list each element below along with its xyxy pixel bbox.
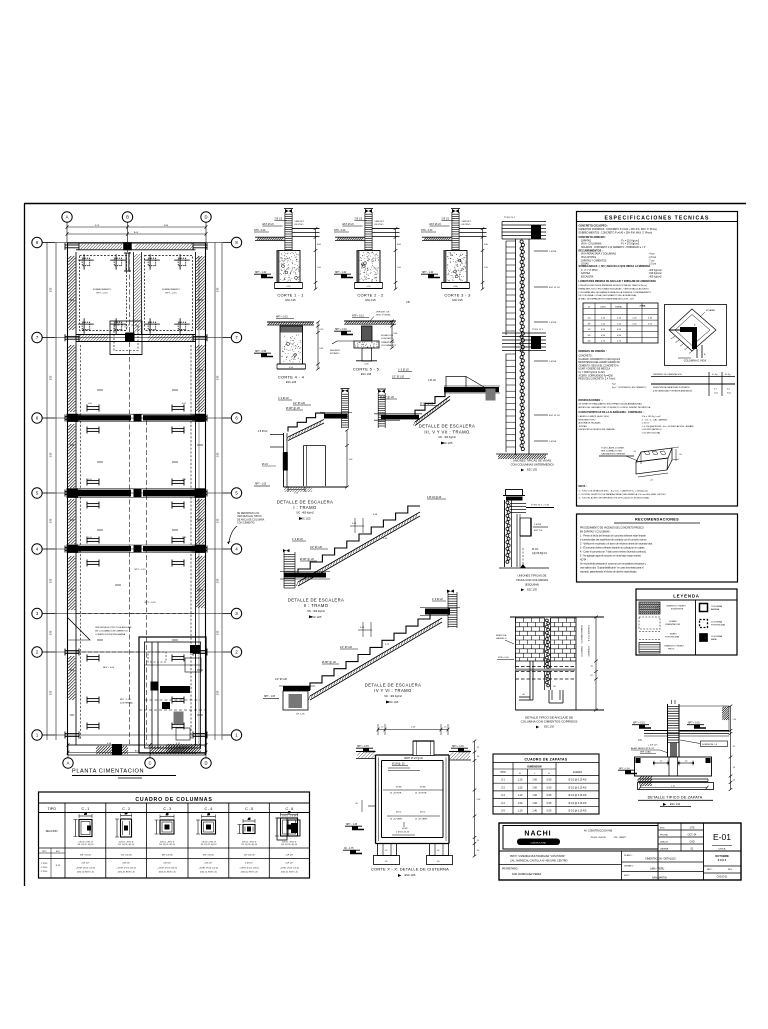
svg-text:2.85: 2.85 — [218, 287, 220, 292]
svg-text:NTN +0.00: NTN +0.00 — [498, 657, 509, 659]
grid bubble C bottom — [145, 758, 155, 768]
stair detail I tramo — [254, 389, 353, 521]
svg-text:1/4: 1@.05, 4@.10: 1/4: 1@.05, 4@.10 — [118, 844, 134, 846]
svg-text:LADRILLO: LADRILLO — [496, 637, 507, 640]
svg-text:3º PISO: 3º PISO — [41, 870, 48, 873]
svg-text:: 2.5 cm: : 2.5 cm — [648, 257, 656, 259]
detail uniones vigas-columnas intermedio — [496, 216, 560, 472]
svg-text:+4 EST. Ø 1/4: 1@.05: +4 EST. Ø 1/4: 1@.05 — [116, 867, 136, 869]
svg-text:CIMIENTO Y MURO: CIMIENTO Y MURO — [666, 606, 686, 608]
title block scale table — [657, 823, 659, 880]
svg-text:NPT - 1.10: NPT - 1.10 — [335, 272, 347, 274]
svg-text:Ø 3/8: Ø 3/8 — [402, 828, 408, 830]
box especificaciones tecnicas — [577, 212, 738, 507]
svg-text:2.- EL NIVEL DE APOYO DE ZAPAT: 2.- EL NIVEL DE APOYO DE ZAPATAS SERA CU… — [579, 493, 667, 496]
svg-text:LONGITUDES MINIMAS DE ANCLAJE: LONGITUDES MINIMAS DE ANCLAJE Y EMPALME … — [579, 280, 657, 283]
room dashed sobrecimiento outlines upper-left — [80, 256, 127, 331]
bottom wall row 1 — [68, 744, 206, 746]
svg-text:1.40: 1.40 — [532, 810, 537, 813]
svg-text:1º 2 Ø 1/2: 1º 2 Ø 1/2 — [292, 537, 303, 541]
svg-text:Ø 3/8" @ .20: Ø 3/8" @ .20 — [380, 396, 394, 399]
leyenda swatch sobrecimentacion — [639, 617, 660, 629]
svg-text:TIPO: TIPO — [42, 851, 47, 853]
svg-text:SECCION: SECCION — [46, 829, 58, 833]
svg-text:ESC 1/25: ESC 1/25 — [365, 299, 376, 302]
svg-text:2.85: 2.85 — [51, 578, 53, 583]
svg-text:C - 2: C - 2 — [122, 807, 130, 811]
svg-text:SEGUNDO: SEGUNDO — [330, 350, 341, 352]
svg-text:NPT + 0.15: NPT + 0.15 — [633, 723, 645, 725]
svg-text:2.5 Ø 1/2: 2.5 Ø 1/2 — [258, 431, 268, 433]
svg-text:2.- Verificar el encofrado y e: 2.- Verificar el encofrado y el acero de… — [580, 543, 653, 546]
top dimension lines — [67, 226, 206, 228]
svg-text:CORTE 2 - 2: CORTE 2 - 2 — [357, 292, 384, 297]
svg-text:: 0.15 MTS (SOGA): : 0.15 MTS (SOGA) — [641, 432, 660, 435]
svg-text:2 Ø 5/8: 2 Ø 5/8 — [549, 361, 557, 363]
leyenda symbol columna baja — [700, 634, 708, 642]
svg-text:1/2" Ø 1.20: 1/2" Ø 1.20 — [310, 546, 323, 549]
table cuadro de zapatas — [493, 754, 599, 814]
svg-text:0.50: 0.50 — [547, 779, 552, 782]
grid bubble A bottom — [63, 758, 73, 768]
svg-text:ESC 1/10: ESC 1/10 — [670, 803, 681, 806]
svg-text:.25: .25 — [207, 814, 210, 816]
svg-text:ESC 1/25: ESC 1/25 — [388, 701, 399, 704]
svg-text:VIGAS CON COLUMNAS: VIGAS CON COLUMNAS — [516, 578, 548, 582]
svg-text:DIBUJO:: DIBUJO: — [660, 842, 669, 844]
svg-text:B: B — [126, 215, 129, 220]
svg-text:DETALLE DE ESCALERA: DETALLE DE ESCALERA — [365, 682, 421, 687]
svg-text:.40: .40 — [660, 761, 663, 763]
svg-text:CIMIENTO: CIMIENTO — [580, 646, 582, 657]
svg-text:(ESQUINA): (ESQUINA) — [525, 583, 540, 587]
svg-text:RESISTENCIA CAPACIDAD PORTANTE: RESISTENCIA CAPACIDAD PORTANTE — [653, 386, 690, 389]
svg-text:4 Ø 1/2": 4 Ø 1/2" — [163, 863, 171, 865]
svg-text:COLUMNA CON CIMIENTOS CORRIDOS: COLUMNA CON CIMIENTOS CORRIDOS — [521, 720, 578, 724]
footing section CORTE 4-4 — [254, 317, 323, 384]
svg-text:F'c Kg: F'c Kg — [725, 374, 730, 376]
svg-text:C: C — [148, 761, 151, 766]
right extension lines — [214, 243, 216, 741]
svg-text:ZAPATAS: ZAPATAS — [581, 239, 591, 242]
svg-text:1.- Previo al inicio del llena: 1.- Previo al inicio del llenado del con… — [580, 535, 646, 538]
svg-text:.95: .95 — [733, 746, 736, 748]
svg-text:4@0.10, RSTO .20: 4@0.10, RSTO .20 — [118, 872, 136, 874]
spec anchorage diagram columna o viga — [665, 305, 727, 366]
svg-text:4@0.10, RSTO .20: 4@0.10, RSTO .20 — [77, 872, 95, 874]
box recomendaciones — [577, 514, 738, 582]
svg-text:LONGITUD RECTA DE EMPALME SEGU: LONGITUD RECTA DE EMPALME SEGUN ZONA DE … — [579, 284, 648, 287]
svg-text:1º 2 Ø 1/2: 1º 2 Ø 1/2 — [278, 396, 289, 400]
svg-text:REV. :: REV. : — [707, 869, 714, 871]
leader note between plan and stairs — [227, 512, 265, 544]
svg-text:.25: .25 — [84, 814, 87, 816]
svg-text:VER CUAD.: VER CUAD. — [640, 751, 652, 754]
svg-text:ALAM. NEGRO Nº 8 C/3: ALAM. NEGRO Nº 8 C/3 — [631, 747, 655, 750]
foundation plan PLANTA CIMENTACION — [32, 212, 242, 778]
svg-text:CONCRETO ARMADO :: CONCRETO ARMADO : — [579, 236, 607, 239]
svg-text:LADRILLO (ARCILLA KK 18 H): LADRILLO (ARCILLA KK 18 H) — [579, 415, 610, 418]
detail corte X-X cisterna — [343, 724, 480, 877]
svg-text:1.50: 1.50 — [518, 786, 523, 789]
svg-text:1/4: 1@.05, 4@.10: 1/4: 1@.05, 4@.10 — [78, 844, 94, 846]
svg-text:2 Ø 1/2: 2 Ø 1/2 — [428, 379, 437, 382]
svg-text:ESC 1/25: ESC 1/25 — [300, 518, 311, 521]
zapata upper wall rectangle — [679, 706, 729, 732]
svg-text:SOBRECIMIENTO: SOBRECIMIENTO — [162, 289, 181, 291]
svg-text:: 0.25 MTS (APROX): : 0.25 MTS (APROX) — [641, 428, 662, 431]
svg-text:S/C : 400 Kg/m2: S/C : 400 Kg/m2 — [438, 436, 456, 439]
svg-text:: 150 Kg/cm2: : 150 Kg/cm2 — [648, 273, 662, 275]
svg-text:NPT + 0.15: NPT + 0.15 — [688, 723, 700, 725]
svg-text:SOBRE: SOBRE — [669, 621, 677, 623]
row 2 dashed line — [76, 651, 140, 653]
dashed corner columns upper rooms — [78, 254, 94, 270]
svg-text:ESC 1/25: ESC 1/25 — [285, 299, 296, 302]
svg-text:2.85: 2.85 — [218, 630, 220, 635]
svg-text:2º NIV. N.T.: 2º NIV. N.T. — [504, 216, 516, 219]
svg-text:4 Ø 1/2": 4 Ø 1/2" — [122, 863, 130, 865]
svg-text:NPT - 1.50: NPT - 1.50 — [619, 768, 630, 770]
detail anclaje columna con cimientos corridos — [496, 616, 604, 729]
svg-text:VIGA - COLUMNAS: VIGA - COLUMNAS — [581, 243, 602, 246]
footing section 2 - 2 — [334, 209, 402, 302]
svg-text:4@0.10, RSTO .20: 4@0.10, RSTO .20 — [241, 872, 259, 874]
svg-text:CAL. MARISCAL CASTILLA N° 456: CAL. MARISCAL CASTILLA N° 456 URB. CENTR… — [510, 860, 568, 863]
svg-text:DETALLE TIPICO DE ZAPATA: DETALLE TIPICO DE ZAPATA — [648, 795, 703, 799]
svg-text:SAN MARTIN: SAN MARTIN — [652, 877, 667, 880]
svg-text:CIMIENTO Y MURO: CIMIENTO Y MURO — [664, 646, 684, 648]
svg-text:TERRENO DE CIMENTACION: TERRENO DE CIMENTACION — [653, 373, 682, 376]
svg-text:.60: .60 — [385, 861, 388, 863]
svg-text:ZAPATAS Y CIMIENTOS: ZAPATAS Y CIMIENTOS — [581, 259, 607, 262]
svg-text:DE PISO: DE PISO — [375, 224, 384, 226]
svg-text:LAMINA:: LAMINA: — [660, 848, 669, 851]
svg-text:EXISTENTE: EXISTENTE — [671, 609, 684, 611]
svg-text:Ø 1/2: Ø 1/2 — [396, 812, 402, 814]
svg-text:3/8" 1@.05: 3/8" 1@.05 — [162, 854, 174, 856]
svg-text:1/4: 1@.05, 4@.10: 1/4: 1@.05, 4@.10 — [281, 844, 297, 846]
svg-text:I : TRAMO: I : TRAMO — [293, 505, 317, 510]
beam row 4 solid — [70, 546, 131, 551]
stair triangle lower-left wall — [68, 618, 90, 640]
svg-text:ESC 1/25: ESC 1/25 — [361, 373, 372, 376]
svg-text:F'c Kg: F'c Kg — [712, 374, 717, 376]
svg-text:CORRIDO: CORRIDO — [587, 646, 589, 657]
svg-text:ESC 1/25: ESC 1/25 — [442, 442, 453, 445]
svg-text:1.00: 1.00 — [532, 786, 537, 789]
svg-text:DE PISO: DE PISO — [295, 224, 304, 226]
svg-text:1/4: 1@.05, 4@.10: 1/4: 1@.05, 4@.10 — [201, 844, 217, 846]
svg-text:VER DET.: VER DET. — [375, 221, 385, 223]
zapata column grey core — [670, 743, 677, 757]
svg-text:Ø 1/2 @ 0.15 A/S: Ø 1/2 @ 0.15 A/S — [569, 810, 587, 813]
svg-text:2 Ø 1/2: 2 Ø 1/2 — [355, 219, 363, 221]
svg-text:1/4: 1@.05, 4@.10: 1/4: 1@.05, 4@.10 — [159, 844, 175, 846]
svg-text:CUADRO DE ZAPATAS: CUADRO DE ZAPATAS — [524, 757, 567, 761]
svg-text:NPT - 1.05: NPT - 1.05 — [120, 699, 131, 701]
grid bubble D top — [201, 212, 211, 222]
svg-text:PLANO :: PLANO : — [624, 854, 633, 857]
svg-text:BAJA: BAJA — [711, 638, 717, 641]
svg-text:PROPIETARIO :: PROPIETARIO : — [502, 868, 519, 871]
svg-text:C - 1: C - 1 — [82, 807, 90, 811]
svg-text:VER DET.: VER DET. — [462, 221, 472, 223]
svg-text:DIMENSION: DIMENSION — [527, 766, 541, 769]
svg-text:PLANTA CIMENTACION: PLANTA CIMENTACION — [72, 769, 144, 775]
svg-text:CORTE 1 - 1: CORTE 1 - 1 — [277, 292, 304, 297]
svg-text:EST. Ø 1/4: EST. Ø 1/4 — [549, 287, 560, 289]
svg-text:4@0.10, RSTO .20: 4@0.10, RSTO .20 — [159, 872, 177, 874]
svg-text:1/75: 1/75 — [690, 827, 695, 830]
svg-text:CORTE X - X: DETALLE DE CIST: CORTE X - X: DETALLE DE CISTERNA — [371, 867, 449, 872]
svg-text:E-01: E-01 — [713, 832, 731, 842]
svg-text:NPT - 1.05: NPT - 1.05 — [255, 484, 267, 486]
svg-text:CONCRETO CICLOPEO :: CONCRETO CICLOPEO : — [579, 225, 609, 228]
svg-text:VER DET.: VER DET. — [295, 221, 305, 223]
svg-text:Ø 1/4: Ø 1/4 — [262, 464, 268, 466]
svg-text:DIST. :: DIST. : — [624, 875, 631, 877]
grid bubble A top — [62, 212, 72, 222]
svg-text:: 4 cm: : 4 cm — [648, 254, 654, 256]
svg-text:VIGA CHATAS: VIGA CHATAS — [581, 256, 596, 259]
svg-text:1/2" Ø 1.20: 1/2" Ø 1.20 — [340, 646, 353, 649]
svg-text:2 Ø 5/8: 2 Ø 5/8 — [549, 322, 557, 324]
svg-text:DETALLE DE ESCALERA: DETALLE DE ESCALERA — [288, 597, 344, 602]
svg-text:Ø 1/2 @ 0.15 A/S: Ø 1/2 @ 0.15 A/S — [569, 779, 587, 782]
svg-text:CEMENTO: SEGUN EL CONCRETO A: CEMENTO: SEGUN EL CONCRETO A — [579, 364, 620, 367]
perimeter wall right — [205, 243, 207, 756]
svg-text:ACERO: CORRUGADO Fy=4200: ACERO: CORRUGADO Fy=4200 — [579, 374, 614, 377]
svg-text:2 Ø 1/2 @.25: 2 Ø 1/2 @.25 — [396, 832, 410, 834]
svg-text:Ø: Ø — [588, 307, 590, 309]
svg-text:: 1.5 CM (ESPESOR - Ecs, DOSIF: : 1.5 CM (ESPESOR - Ecs, DOSIFICACION - … — [641, 425, 694, 428]
svg-text:2.85: 2.85 — [218, 578, 220, 583]
svg-text:DE PISO: DE PISO — [462, 224, 471, 226]
row 3 dashed line — [76, 613, 195, 615]
svg-text:1 Ø 1/4": 1 Ø 1/4" — [285, 854, 293, 856]
svg-text:ESC 1/25: ESC 1/25 — [311, 616, 322, 619]
stair detail III V VII tramo — [374, 368, 500, 446]
svg-text:.40: .40 — [385, 850, 388, 852]
svg-text:SE DEBE DE REALIZAR EL ENCOFRA: SE DEBE DE REALIZAR EL ENCOFRADO A LAS A… — [579, 403, 643, 406]
svg-text:UNICA: UNICA — [719, 848, 726, 851]
svg-text:4@0.10, RSTO .20: 4@0.10, RSTO .20 — [281, 872, 299, 874]
svg-text:FECHA:: FECHA: — [660, 834, 668, 837]
svg-text:MURO DE: MURO DE — [496, 635, 507, 637]
perimeter column markers — [65, 415, 79, 422]
svg-text:V.S.: V.S. — [638, 739, 643, 742]
row grid lines across plan — [42, 242, 231, 244]
svg-text:DETALLE DE ESCALERA: DETALLE DE ESCALERA — [419, 424, 475, 429]
svg-text:Ø 3/8" @ .20: Ø 3/8" @ .20 — [286, 407, 300, 410]
svg-text:CONCRETO: CONCRETO — [381, 338, 393, 340]
svg-text:NPT + 0.15: NPT + 0.15 — [134, 569, 146, 571]
svg-text:EST. Ø 1/4: EST. Ø 1/4 — [263, 224, 275, 226]
svg-text:4@0.10, RSTO .20: 4@0.10, RSTO .20 — [200, 872, 218, 874]
svg-text:TELEF: 456789: TELEF: 456789 — [590, 837, 606, 839]
svg-text:0.50: 0.50 — [547, 794, 552, 797]
svg-text:S/C : 400 Kg/m2: S/C : 400 Kg/m2 — [296, 512, 314, 515]
detail tipico de zapata — [618, 700, 736, 807]
svg-text:2.85: 2.85 — [51, 518, 53, 523]
svg-text:V.B.: V.B. — [406, 301, 411, 304]
svg-text:3.- TODO EL ACERO DE REFUERZO: 3.- TODO EL ACERO DE REFUERZO ES DE F¡=4… — [579, 497, 650, 500]
svg-text:3.- El concreto debera vibrars: 3.- El concreto debera vibrarse durante … — [580, 547, 645, 550]
svg-text:4 Ø 1/2": 4 Ø 1/2" — [245, 863, 253, 865]
svg-text:NPT + 0.15: NPT + 0.15 — [144, 602, 156, 604]
svg-text:C - 4: C - 4 — [205, 807, 213, 811]
svg-text:+ 4 Ø 1/2": + 4 Ø 1/2" — [648, 745, 658, 747]
svg-text:1.00: 1.00 — [532, 802, 537, 805]
svg-text:ESPECIFICACIONES TECNICAS: ESPECIFICACIONES TECNICAS — [604, 215, 709, 221]
svg-text:VER DET. DE: VER DET. DE — [376, 312, 390, 314]
svg-text:IV Y VI : TRAMO: IV Y VI : TRAMO — [374, 688, 412, 693]
svg-text:C - 3: C - 3 — [163, 807, 171, 811]
footing section 1 - 1 — [254, 209, 322, 302]
svg-text:@ .20 HOR.: @ .20 HOR. — [415, 793, 427, 795]
svg-text:0.15: 0.15 — [320, 329, 324, 331]
svg-text:SOBRECIMIENTO: SOBRECIMIENTO — [93, 289, 112, 291]
svg-text:Kg f * CONTENIDO EN CEMENTO: Kg f * CONTENIDO EN CEMENTO — [612, 387, 647, 389]
svg-text:NOTA :: NOTA : — [579, 485, 587, 488]
svg-text:EST.: EST. — [56, 851, 61, 853]
svg-text:.15: .15 — [381, 727, 384, 729]
column symbols row 7 — [65, 334, 79, 341]
svg-text:+4 EST. Ø 1/4: 1@.05: +4 EST. Ø 1/4: 1@.05 — [239, 867, 259, 869]
svg-text:VER DETALLE TIPICO DE ANCLAJE: VER DETALLE TIPICO DE ANCLAJE — [95, 626, 132, 629]
svg-text:1º 2 Ø 1/2: 1º 2 Ø 1/2 — [432, 597, 443, 601]
svg-text:+4 EST. Ø 1/4: 1@.05: +4 EST. Ø 1/4: 1@.05 — [76, 867, 96, 869]
title block project rows — [499, 850, 741, 852]
svg-text:.20: .20 — [733, 780, 736, 782]
svg-text:NPT - 1.05: NPT - 1.05 — [264, 696, 276, 698]
svg-text:EMPAL.: EMPAL. — [615, 306, 623, 309]
svg-text:DETALLE DE ESCALERA: DETALLE DE ESCALERA — [277, 499, 333, 504]
svg-text:@ .20 VERT.: @ .20 VERT. — [390, 819, 403, 821]
svg-text:CAVIDADES NI GRIETAS: CAVIDADES NI GRIETAS — [601, 452, 626, 455]
svg-text:COLUMNA EXT.: COLUMNA EXT. — [381, 344, 397, 347]
svg-text:LIMA - PERU: LIMA - PERU — [650, 868, 664, 871]
grid bubbles left column — [32, 237, 42, 247]
svg-text:CORTE 4 - 4: CORTE 4 - 4 — [278, 374, 305, 379]
svg-text:A: A — [66, 215, 69, 220]
svg-text:ALTURA DE HILADAS: ALTURA DE HILADAS — [579, 422, 602, 425]
svg-text:CON CIMIENTO: CON CIMIENTO — [237, 522, 255, 525]
svg-text:1.20: 1.20 — [518, 810, 523, 813]
svg-text:1/2" Ø 1.20: 1/2" Ø 1.20 — [275, 678, 288, 681]
svg-text:y humedecidas las superficies: y humedecidas las superficies de contact… — [580, 539, 647, 542]
stair detail IV VI tramo — [263, 590, 460, 716]
svg-text:2.85: 2.85 — [218, 452, 220, 457]
svg-text:NPT - 1.10: NPT - 1.10 — [422, 272, 434, 274]
spec resistencia table — [651, 376, 735, 378]
wall dashed offsets full height — [80, 345, 82, 740]
svg-text:DOSIFICACIONES : -: DOSIFICACIONES : - — [579, 399, 604, 402]
svg-text:CALIDAD: CONCRETO F'c=210 Kg/: CALIDAD: CONCRETO F'c=210 Kg/cm2 — [579, 358, 621, 361]
svg-text:0.90: 0.90 — [320, 348, 324, 350]
svg-text:ESC:: ESC: — [660, 828, 665, 830]
svg-text:1.50: 1.50 — [733, 719, 737, 721]
bottom dimension lines — [68, 744, 206, 746]
svg-text:DE COLUMNA CON CIMIENTOS: DE COLUMNA CON CIMIENTOS — [95, 629, 128, 632]
svg-text:ACERO: ACERO — [573, 770, 582, 774]
svg-text:NPT + 0.15: NPT + 0.15 — [452, 746, 464, 748]
svg-text:2.85: 2.85 — [51, 375, 53, 380]
svg-text:: 1 : 0.5 : 4 , CAL - ARENA: : 1 : 0.5 : 4 , CAL - ARENA — [641, 418, 667, 421]
sheet border frame — [24, 203, 746, 205]
svg-text:1.00: 1.00 — [532, 794, 537, 797]
svg-text:CF - 1.75: CF - 1.75 — [344, 848, 354, 850]
svg-text:NPT + 0.15: NPT + 0.15 — [165, 293, 177, 295]
svg-text:4.- Curar el concreto por 7 di: 4.- Curar el concreto por 7 dias como mi… — [580, 551, 647, 554]
zapata inner dimension arrows — [654, 762, 668, 764]
svg-text:2.85: 2.85 — [51, 630, 53, 635]
svg-text:vaceado, garantizando el sl: vaceado, garantizando el slump de diseño… — [580, 571, 637, 574]
svg-text:ESC 1/25: ESC 1/25 — [527, 589, 538, 591]
svg-text:Ø 3/8: Ø 3/8 — [420, 787, 426, 789]
central vertical wall B — [133, 252, 135, 335]
svg-text:ZONA: ZONA — [640, 304, 646, 307]
zapata bottom slab — [638, 783, 714, 790]
svg-text:.55: .55 — [477, 747, 480, 749]
zapata footing body — [635, 757, 712, 776]
svg-text:4 Ø 1/2 + EST. Ø: 4 Ø 1/2 + EST. Ø — [78, 842, 93, 844]
leyenda symbol columna proyectada — [700, 620, 708, 628]
svg-text:5.- No agregar agua al concret: 5.- No agregar agua al concreto en obra … — [580, 555, 642, 558]
svg-text:.24: .24 — [650, 480, 653, 482]
svg-text:usar aditivo tipo "Superpla: usar aditivo tipo "Superplastificante" e… — [580, 567, 644, 570]
svg-text:Ø 3/8" @ .20: Ø 3/8" @ .20 — [300, 558, 314, 561]
svg-text:II : TRAMO: II : TRAMO — [304, 603, 329, 608]
svg-text:VIGA PERALTADA Y COLUMNAS: VIGA PERALTADA Y COLUMNAS — [581, 253, 616, 256]
svg-text:.50: .50 — [477, 850, 480, 852]
svg-text:ING.: ING. — [728, 869, 733, 871]
svg-text:ARRIBA: ARRIBA — [711, 608, 720, 611]
svg-text:CORRIDOS EN ESTA LAMINA: CORRIDOS EN ESTA LAMINA — [95, 633, 126, 636]
svg-text:AZOTEA: AZOTEA — [581, 272, 591, 275]
leyenda symbol columna arriba — [700, 604, 708, 612]
svg-text:2 Ø 5/8: 2 Ø 5/8 — [549, 441, 557, 443]
svg-text:2 Ø 5/8: 2 Ø 5/8 — [549, 251, 557, 253]
svg-text:D: D — [204, 215, 207, 220]
svg-text:NPT + 0.15: NPT + 0.15 — [276, 317, 288, 319]
perimeter wall left — [67, 243, 69, 756]
table cuadro de columnas — [39, 792, 310, 878]
svg-text:NPT - 1.10: NPT - 1.10 — [255, 272, 267, 274]
svg-text:RECUBRIMIENTOS :: RECUBRIMIENTOS : — [579, 249, 603, 252]
svg-text:1/2" Ø 1.20: 1/2" Ø 1.20 — [293, 402, 306, 405]
svg-text:NTP + 0.13: NTP + 0.13 — [352, 316, 364, 318]
svg-text:ANTES DEL VACEADO DEL CONCRETO: ANTES DEL VACEADO DEL CONCRETO CON EL DI… — [579, 406, 651, 409]
svg-text:TIPO: TIPO — [500, 771, 506, 774]
center dashed axes — [128, 252, 130, 744]
svg-text:LEYENDA: LEYENDA — [673, 593, 700, 598]
svg-text:4 Ø 1/2 + EST. Ø: 4 Ø 1/2 + EST. Ø — [242, 842, 257, 844]
svg-text:PROY.: PROY. — [668, 649, 675, 651]
svg-text:Ø VARIA: Ø VARIA — [706, 309, 715, 312]
svg-text:Ø MAX. DE EMPALME EN UNA MISMA: Ø MAX. DE EMPALME EN UNA MISMA SECCION :… — [579, 297, 635, 300]
svg-text:2.85: 2.85 — [218, 518, 220, 523]
svg-text:1/4: 1@.05, 4@.10: 1/4: 1@.05, 4@.10 — [241, 844, 257, 846]
svg-text:1.20: 1.20 — [518, 794, 523, 797]
svg-text:4 Ø 1/2 + EST. Ø: 4 Ø 1/2 + EST. Ø — [119, 842, 134, 844]
svg-text:OCT. 04: OCT. 04 — [688, 834, 697, 837]
svg-text:PISO 1º NIVEL: PISO 1º NIVEL — [376, 314, 392, 317]
svg-text:4 Ø 1/2 + EST. Ø: 4 Ø 1/2 + EST. Ø — [201, 842, 216, 844]
svg-text:: F'c = 210 Kg/cm2: : F'c = 210 Kg/cm2 — [620, 240, 640, 242]
svg-text:ESC 1/25: ESC 1/25 — [405, 874, 416, 877]
